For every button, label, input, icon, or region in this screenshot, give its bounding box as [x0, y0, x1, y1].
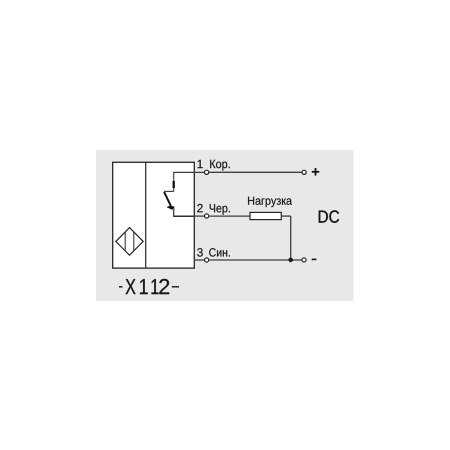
- sensor body outline: [113, 162, 195, 268]
- wire resistor to corner: [281, 215, 290, 217]
- transistor Q1 emitter arrowhead: [167, 206, 175, 210]
- transistor Q1 bar (thick segment): [173, 181, 175, 188]
- label DC: [319, 210, 339, 222]
- pin label 3: [197, 248, 203, 257]
- wire pin3 to minus terminal: [209, 259, 302, 261]
- wire pin3: box to terminal: [194, 259, 204, 261]
- sensor designation digit 1b: [152, 279, 159, 294]
- minus sign: [312, 258, 317, 260]
- transistor Q1 base connector (short horizontal): [164, 190, 174, 192]
- sensor designation X: [126, 279, 136, 294]
- minus terminal circle: [302, 258, 306, 262]
- pin label 2: [197, 204, 203, 212]
- sensor body divider line: [145, 162, 147, 268]
- plus terminal circle: [302, 170, 306, 174]
- sensor designation trailing hyphen: [172, 286, 179, 288]
- wire pin2: transistor to terminal (in-box segment darker): [173, 215, 194, 217]
- transistor Q1 collector lead (thin vertical): [173, 172, 175, 191]
- plus sign: [312, 171, 320, 173]
- proximity sensor symbol: diamond: [116, 228, 143, 256]
- pin label Кор.: [210, 160, 230, 171]
- label Нагрузка: [248, 197, 292, 207]
- wire pin1 to plus terminal: [209, 171, 302, 173]
- sensor designation leading hyphen: [119, 286, 123, 288]
- pin label 1: [198, 160, 203, 168]
- transistor Q1 emitter diagonal: [164, 192, 171, 206]
- load resistor "Нагрузка": [250, 212, 281, 219]
- pin 1 terminal circle: [205, 170, 209, 174]
- pin 3 terminal circle: [205, 258, 209, 262]
- wire vertical down to minus rail: [290, 216, 292, 260]
- sensor designation digit 1a: [140, 279, 148, 294]
- junction node dot: [288, 258, 293, 263]
- sensor designation digit 2: [159, 279, 169, 294]
- pin label Чер.: [210, 204, 230, 215]
- pin 2 terminal circle: [205, 214, 209, 218]
- wire pin2 to load resistor: [209, 215, 250, 217]
- pin label Син.: [209, 248, 230, 257]
- wire pin1: transistor to terminal: [173, 171, 204, 173]
- transistor Q1 emitter lead (vertical to pin2): [173, 208, 175, 216]
- diamond inner line right: [133, 232, 135, 252]
- diamond inner line left: [124, 232, 126, 252]
